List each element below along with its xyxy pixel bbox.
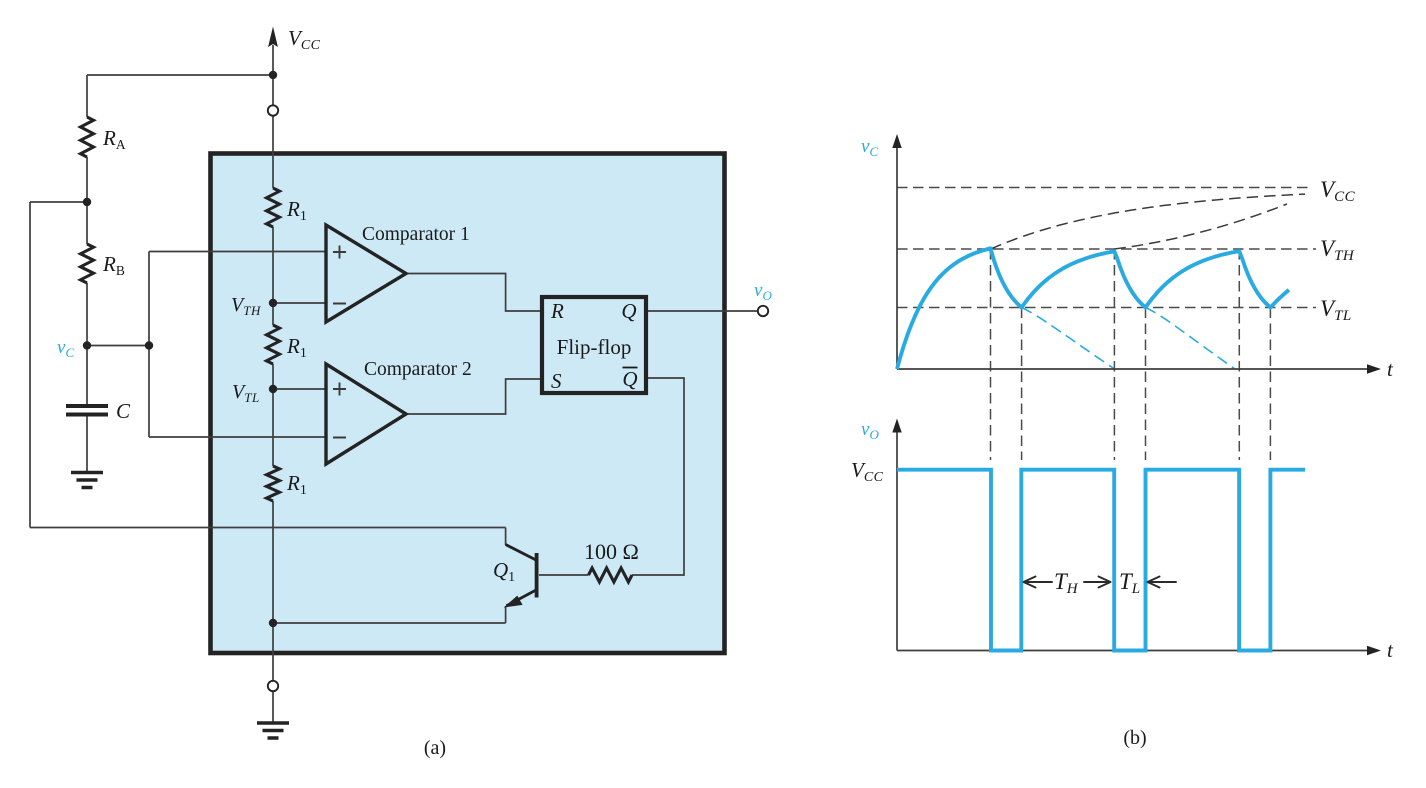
svg-text:Flip-flop: Flip-flop: [557, 335, 632, 359]
svg-text:Comparator 1: Comparator 1: [362, 224, 470, 245]
svg-text:Q: Q: [621, 299, 636, 323]
svg-text:Q: Q: [622, 367, 637, 391]
svg-text:R: R: [550, 299, 564, 323]
svg-text:100 Ω: 100 Ω: [584, 539, 639, 564]
svg-text:(b): (b): [1123, 727, 1146, 749]
svg-text:S: S: [551, 369, 562, 393]
svg-text:Comparator 2: Comparator 2: [364, 359, 472, 380]
svg-text:(a): (a): [424, 737, 446, 759]
svg-text:C: C: [116, 399, 131, 423]
